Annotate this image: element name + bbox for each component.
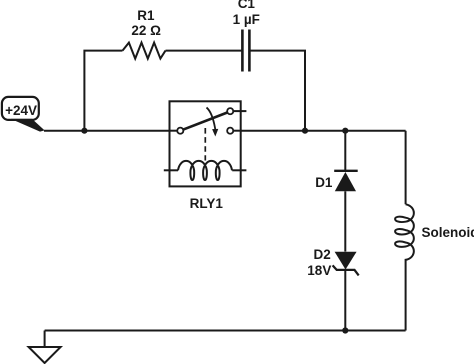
capacitor C1 xyxy=(242,30,249,72)
wire bottom rail xyxy=(45,330,406,332)
node junction D2 to bottom rail xyxy=(342,327,348,333)
wire relay NC contact to right corner xyxy=(240,130,406,132)
node +24V supply tag xyxy=(2,97,45,132)
ground xyxy=(29,331,61,364)
wire main horizontal from +24V to relay common xyxy=(44,130,170,132)
resistor R1 xyxy=(123,43,166,59)
relay coil pin stub right xyxy=(232,169,246,171)
diode D1 (cathode bar up) xyxy=(334,171,358,192)
wire D1 to D2 xyxy=(344,191,346,251)
relay coil pin stub left xyxy=(164,169,178,171)
wire D2 to bottom rail xyxy=(344,270,346,331)
label D1 xyxy=(315,176,332,190)
label 1 uF xyxy=(233,13,260,27)
label C1 xyxy=(238,0,255,10)
wire stub box edge to common contact xyxy=(169,130,178,132)
wire stub NC contact to box edge xyxy=(233,130,241,132)
label +24V xyxy=(5,104,37,118)
node junction C1 branch meets NC wire xyxy=(302,128,308,134)
wire R1 to C1 xyxy=(166,50,243,52)
wire D1 branch from junction down xyxy=(344,131,346,171)
zener diode D2 18V xyxy=(333,252,359,276)
inductor Solenoid coil xyxy=(395,204,414,260)
wire right vertical down to solenoid xyxy=(405,131,407,205)
label 18V xyxy=(307,264,331,278)
node junction at left vertical xyxy=(81,128,87,134)
wire C1 to right vertical xyxy=(250,51,305,131)
relay common contact xyxy=(177,128,183,134)
wire left vertical branch up to R1 row xyxy=(84,51,122,131)
relay switch arm xyxy=(183,113,227,130)
label D2 xyxy=(314,248,331,262)
relay dashed actuator link xyxy=(204,128,206,161)
label 22 ohm xyxy=(131,24,161,38)
relay RLY1 xyxy=(164,101,247,186)
wire below solenoid xyxy=(405,259,407,331)
relay NC contact xyxy=(227,128,233,134)
node junction D1 branch xyxy=(342,128,348,134)
relay NO stub xyxy=(233,110,246,112)
relay actuation arrow xyxy=(207,108,219,137)
label R1 xyxy=(137,9,154,23)
relay NO contact xyxy=(227,108,233,114)
label Solenoid xyxy=(422,226,474,240)
relay coil xyxy=(178,161,232,180)
label RLY1 xyxy=(190,197,223,211)
